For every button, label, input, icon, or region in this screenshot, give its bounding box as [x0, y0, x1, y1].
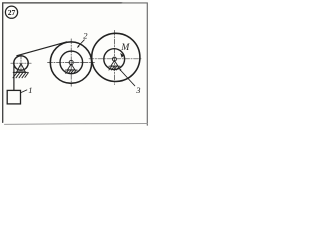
wheel 3 pivot support with hatching	[109, 61, 120, 70]
torque M arrowhead on wheel 3 inner rim	[120, 53, 124, 58]
svg-text:1: 1	[28, 85, 32, 95]
wheel 3 outer circle	[92, 33, 140, 81]
label 1 leader line	[21, 90, 27, 93]
block 1 (hanging weight)	[7, 90, 20, 104]
belt cord from pulley to wheel 2 rim	[17, 42, 67, 56]
wheel 2 axle	[69, 60, 73, 64]
svg-text:3: 3	[135, 85, 140, 95]
label 3 leader arrow	[121, 70, 135, 86]
wheel 2 outer circle	[50, 42, 91, 83]
cord from pulley down to block 1	[13, 63, 15, 91]
svg-text:M: M	[120, 43, 130, 53]
svg-text:27: 27	[8, 8, 16, 17]
problem number badge 27	[5, 6, 17, 18]
pulley wheel	[14, 56, 28, 70]
wheel 2 inner circle (step pulley)	[60, 51, 83, 74]
wheel 3 axle	[112, 57, 116, 61]
wheel 3 centerlines	[89, 30, 142, 84]
pulley centerlines	[11, 55, 31, 71]
wheel 2 pivot support with hatching	[65, 64, 77, 73]
svg-text:2: 2	[83, 31, 88, 41]
wheel 3 inner circle	[104, 49, 125, 70]
label 2 leader arrow	[79, 40, 85, 46]
border frame (drawn, unlabeled content box)	[3, 3, 122, 123]
wheel 2 centerlines	[48, 39, 95, 87]
pulley pivot support with hatching	[13, 64, 28, 78]
